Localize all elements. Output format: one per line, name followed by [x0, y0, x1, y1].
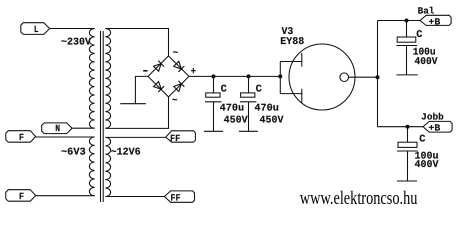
capacitor C1 stem bottom — [213, 102, 215, 132]
svg-text:C: C — [419, 134, 425, 146]
wire F to 6V3 winding bottom — [36, 195, 95, 197]
capacitor C1 bottom plate — [205, 101, 222, 103]
capacitor C Jobb top plate box — [398, 142, 417, 147]
svg-text:450V: 450V — [260, 114, 285, 126]
capacitor C1 470u 450V stem top — [213, 76, 215, 93]
capacitor C1 top plate box — [206, 93, 220, 97]
wire bridge minus to ground — [135, 76, 148, 103]
svg-text:www.elektroncso.hu: www.elektroncso.hu — [300, 188, 418, 209]
port F bottom — [6, 190, 36, 202]
tube anode bracket — [280, 62, 302, 94]
port +B Jobb — [423, 121, 452, 132]
port F top — [6, 131, 36, 143]
capacitor C2 bottom plate — [240, 101, 257, 103]
bridge rectifier diamond — [148, 56, 189, 97]
junction node output rail — [376, 75, 380, 79]
svg-text:470u: 470u — [254, 102, 279, 114]
svg-text:Jobb: Jobb — [421, 111, 444, 122]
svg-text:450V: 450V — [224, 114, 249, 126]
diode D1 (left to top) — [153, 61, 164, 72]
capacitor C2 stem bottom — [248, 102, 250, 132]
port L — [21, 23, 50, 35]
capacitor C2 470u 450V stem top — [248, 76, 250, 93]
diode D3 (left to bottom) — [153, 81, 164, 92]
transformer core — [101, 31, 104, 202]
svg-text:~: ~ — [172, 95, 178, 107]
capacitor C Bal stem top — [406, 21, 408, 38]
svg-text:~: ~ — [173, 47, 179, 59]
svg-text:400V: 400V — [415, 159, 440, 171]
capacitor C2 top plate box — [241, 93, 255, 97]
capacitor C Bal stem bottom — [406, 46, 408, 75]
svg-text:FF: FF — [170, 193, 181, 204]
svg-text:F: F — [19, 132, 25, 143]
label - bridge left — [143, 70, 147, 72]
diode D2 (top to right) — [173, 61, 184, 72]
wire + rail from bridge to tube — [189, 75, 280, 77]
junction node Bal cap — [405, 19, 409, 23]
wire output rail to Jobb port — [378, 126, 424, 128]
svg-text:~12V6: ~12V6 — [111, 147, 141, 159]
svg-text:C: C — [416, 29, 422, 41]
wire 12V6 bottom to FF — [105, 196, 164, 198]
svg-text:C: C — [256, 83, 262, 95]
diode D4 (bottom to right) — [173, 81, 184, 92]
svg-text:+B: +B — [429, 123, 441, 134]
wire HV secondary top to bridge AC top — [105, 29, 168, 57]
wire F to 6V3 winding top — [36, 136, 95, 138]
tube V3 EY88 envelope — [289, 44, 355, 110]
junction node Jobb cap — [406, 125, 410, 129]
wire primary bottom to N — [72, 127, 95, 129]
wire output rail to Bal port — [378, 20, 421, 22]
ground C Bal — [396, 74, 417, 76]
svg-text:470u: 470u — [220, 102, 245, 114]
ground C Jobb — [397, 180, 417, 182]
svg-text:~6V3: ~6V3 — [61, 147, 86, 159]
wire cathode to output rail — [349, 76, 378, 78]
svg-text:F: F — [19, 191, 25, 202]
svg-text:FF: FF — [170, 133, 181, 144]
svg-text:+: + — [191, 66, 197, 78]
wire 12V6 top to FF — [105, 136, 165, 138]
capacitor C Jobb stem top — [407, 127, 409, 143]
wire bridge AC bottom to HV secondary bottom — [105, 97, 168, 128]
port +B Bal — [420, 15, 451, 25]
svg-text:N: N — [55, 123, 60, 134]
junction node C1 — [212, 74, 216, 78]
transformer primary winding — [89, 29, 94, 129]
tube plate bars — [301, 53, 303, 103]
svg-text:Bal: Bal — [418, 6, 435, 17]
svg-text:~230V: ~230V — [61, 36, 92, 48]
wire L to transformer primary — [50, 28, 95, 30]
capacitor C Bal top plate box — [397, 37, 416, 42]
svg-text:400V: 400V — [415, 56, 439, 68]
ground C1 — [204, 130, 223, 132]
capacitor C Jobb stem bottom — [407, 151, 409, 181]
ground C2 — [239, 130, 258, 132]
transformer 12V6 winding — [105, 137, 110, 196]
capacitor C Jobb bottom plate — [397, 150, 418, 152]
port N — [42, 123, 72, 134]
port FF top — [166, 131, 196, 142]
svg-text:+B: +B — [429, 16, 441, 27]
transformer 6V3 winding — [89, 137, 94, 196]
junction node tube anode — [278, 74, 282, 78]
svg-text:L: L — [34, 24, 39, 35]
output rail vertical — [377, 21, 379, 127]
svg-text:C: C — [221, 83, 227, 95]
junction node C2 — [247, 74, 251, 78]
ground (bridge negative) — [120, 103, 146, 105]
transformer HV secondary winding — [105, 29, 110, 129]
capacitor C Bal bottom plate — [396, 45, 417, 47]
port FF bottom — [165, 191, 195, 202]
tube cathode terminal circle — [340, 73, 349, 82]
svg-text:EY88: EY88 — [280, 36, 304, 48]
